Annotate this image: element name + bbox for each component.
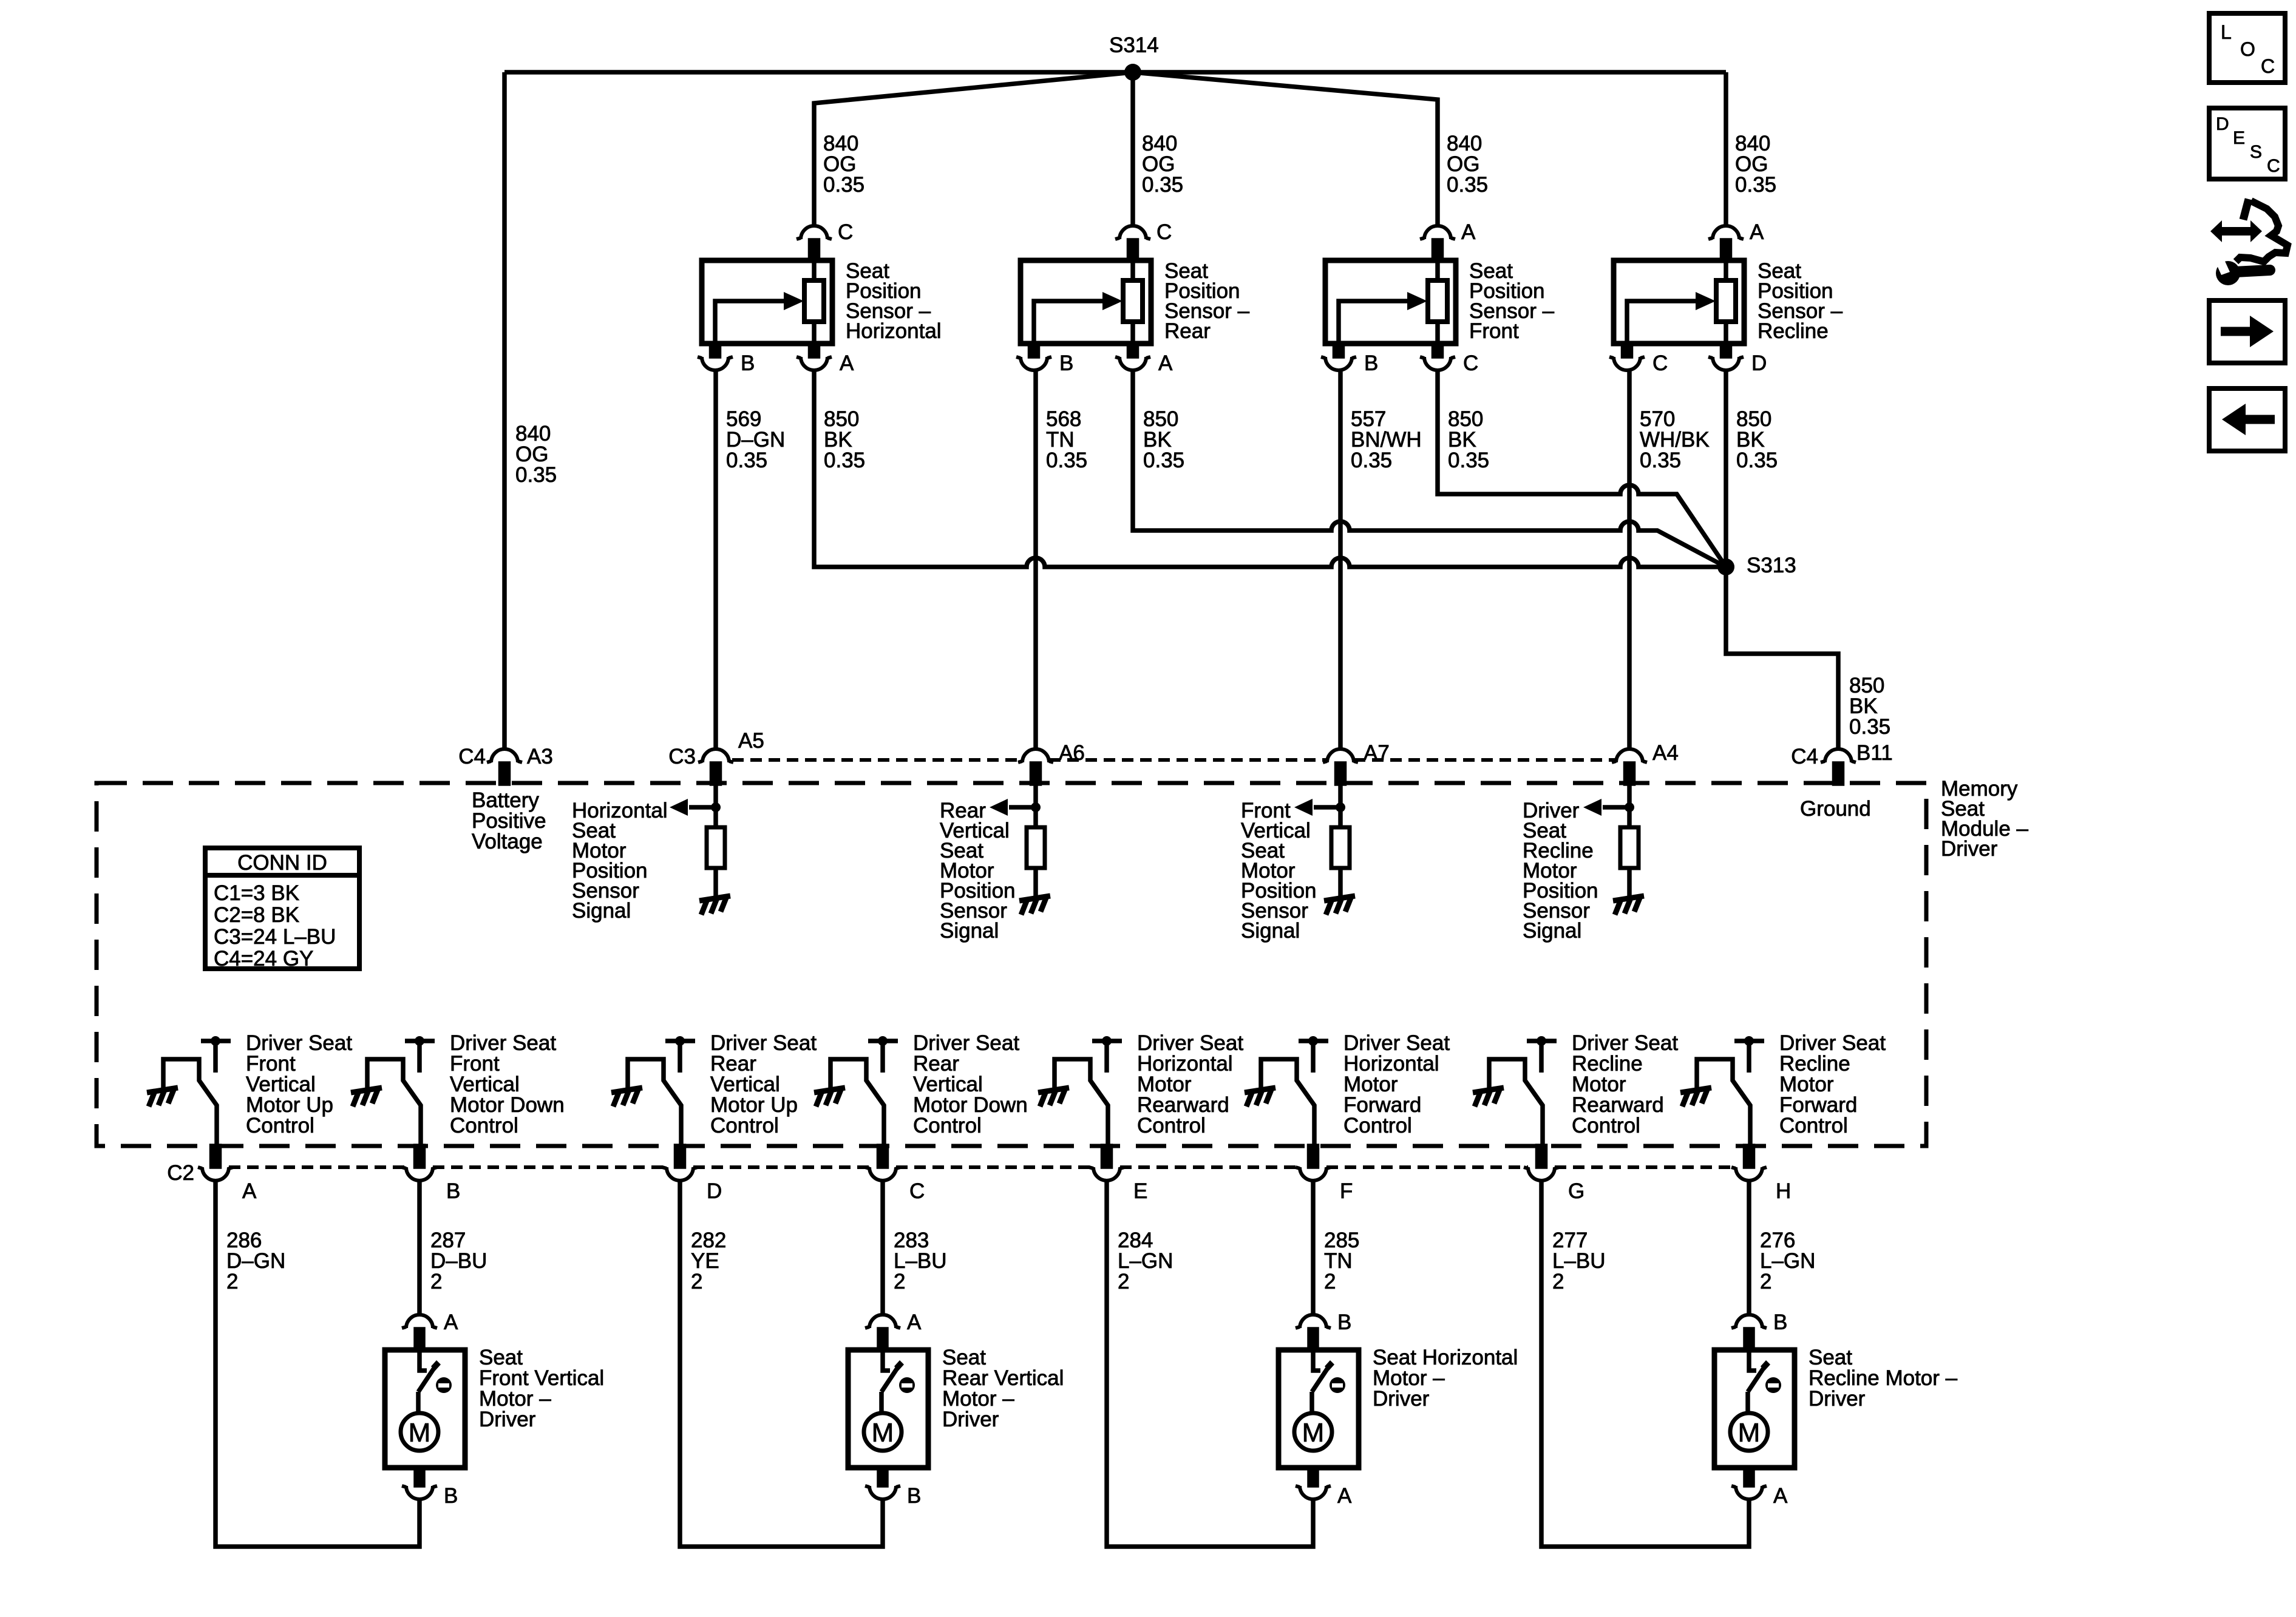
svg-text:CONN ID: CONN ID	[237, 851, 327, 875]
svg-text:Control: Control	[1343, 1114, 1412, 1137]
module pin E connector C2	[1089, 1146, 1147, 1203]
label 277 L–BU	[1552, 1229, 1606, 1293]
svg-text:0.35: 0.35	[1351, 449, 1392, 472]
seat position sensor Front - top pin A	[1420, 220, 1476, 258]
svg-text:S: S	[2250, 142, 2262, 162]
module pin A4	[1612, 741, 1679, 784]
svg-text:A: A	[1337, 1484, 1352, 1508]
svg-text:0.35: 0.35	[1849, 715, 1890, 739]
wire 557 BN/WH sensor front pin B to module pin A7	[1338, 369, 1343, 749]
svg-text:2: 2	[1118, 1270, 1129, 1293]
module pin A6	[1018, 741, 1085, 784]
svg-text:A: A	[1461, 220, 1476, 244]
module pin A3 connector C4	[458, 745, 553, 784]
wire 282 YE module pin D to rear vertical motor pin B	[680, 1181, 883, 1547]
label 282 YE	[691, 1229, 726, 1293]
svg-text:0.35: 0.35	[1735, 173, 1776, 197]
ground rear sensor signal	[1019, 896, 1050, 915]
ground front vertical motor down switch	[351, 1088, 382, 1107]
svg-text:A: A	[1158, 351, 1173, 375]
seat position sensor Recline - bottom pin D	[1708, 346, 1767, 375]
label 850 BK	[1736, 407, 1778, 472]
seat position sensor Recline body	[1614, 259, 1843, 346]
motor Seat Recline Motor – driver - bottom pin A	[1731, 1468, 1788, 1508]
svg-text:A: A	[840, 351, 854, 375]
svg-text:C4: C4	[458, 745, 486, 768]
svg-text:B: B	[1337, 1310, 1351, 1334]
icon LOC box	[2209, 13, 2285, 83]
splice S313	[1717, 554, 1796, 577]
wire 286 D-GN module pin A to front vertical motor pin B	[216, 1181, 419, 1547]
svg-text:Driver: Driver	[1941, 837, 1998, 861]
svg-text:Horizontal: Horizontal	[846, 319, 942, 343]
motor Seat Horizontal Motor – driver - bottom pin A	[1296, 1468, 1352, 1508]
svg-text:Driver: Driver	[1809, 1387, 1866, 1411]
svg-text:C: C	[909, 1179, 925, 1203]
label 284 L–GN	[1118, 1229, 1173, 1293]
svg-text:Recline: Recline	[1758, 319, 1829, 343]
wire 840 OG battery feed drop to module pin A3	[502, 72, 507, 749]
motor Seat Rear Vertical Motor – driver body	[848, 1346, 1064, 1468]
label C2	[167, 1161, 194, 1185]
Driver Seat sensor signal branch	[1523, 784, 1634, 943]
svg-text:Control: Control	[1137, 1114, 1206, 1137]
svg-text:M: M	[1302, 1418, 1325, 1448]
seat position sensor Rear - bottom pin B	[1016, 346, 1073, 375]
svg-text:0.35: 0.35	[823, 173, 864, 197]
label 850 BK	[1448, 407, 1489, 472]
svg-text:Control: Control	[246, 1114, 314, 1137]
switch Driver Seat Horizontal Motor Forward control	[1261, 1031, 1450, 1146]
svg-text:Control: Control	[1572, 1114, 1640, 1137]
svg-text:0.35: 0.35	[726, 449, 767, 472]
svg-text:Driver: Driver	[1373, 1387, 1430, 1411]
switch Driver Seat Recline Motor Rearward control	[1489, 1031, 1678, 1146]
module pin A5 connector C3	[668, 729, 764, 784]
wire 850 BK splice S313 to module pin B11	[1726, 567, 1838, 749]
ground front vertical motor up switch	[147, 1088, 178, 1107]
svg-text:D: D	[1751, 351, 1767, 375]
seat position sensor Rear body	[1021, 259, 1250, 346]
seat position sensor Recline - top pin A	[1708, 220, 1764, 258]
svg-text:Signal: Signal	[572, 899, 631, 923]
switch Driver Seat Horizontal Motor Rearward control	[1055, 1031, 1243, 1146]
motor Seat Recline Motor – driver body	[1714, 1346, 1958, 1468]
label 276 L–GN	[1760, 1229, 1815, 1293]
wire 850 BK sensor front pin C to splice S313	[1438, 369, 1726, 567]
module pin D connector C2	[662, 1146, 722, 1203]
resistor horizontal sensor signal pull-down	[707, 827, 725, 868]
module pin C connector C2	[865, 1146, 925, 1203]
svg-text:Rear: Rear	[1164, 319, 1211, 343]
label 840 OG 0.35	[1447, 132, 1488, 197]
svg-text:0.35: 0.35	[1448, 449, 1489, 472]
module pin G connector C2	[1524, 1146, 1584, 1203]
label 850 BK 0.35 ground wire	[1849, 674, 1890, 739]
svg-text:Control: Control	[710, 1114, 779, 1137]
svg-text:A5: A5	[738, 729, 764, 753]
svg-text:C1=3 BK: C1=3 BK	[214, 881, 299, 905]
wire 570 WH/BK sensor recline pin C to module pin A4	[1627, 369, 1632, 749]
svg-text:2: 2	[1552, 1270, 1564, 1293]
icon wrench	[2215, 259, 2270, 285]
label 557 BN/WH	[1351, 407, 1422, 472]
wire 276 L-GN module pin H to recline motor pin B	[1747, 1181, 1751, 1314]
svg-text:Control: Control	[450, 1114, 518, 1137]
seat position sensor Front - bottom pin C	[1420, 346, 1478, 375]
wire 285 TN module pin F to horizontal motor pin B	[1311, 1181, 1316, 1314]
svg-text:B: B	[444, 1484, 458, 1508]
svg-text:A: A	[444, 1310, 458, 1334]
svg-text:C: C	[1652, 351, 1668, 375]
svg-text:C3: C3	[668, 745, 696, 768]
ground recline motor rearward switch	[1473, 1088, 1504, 1107]
svg-text:C: C	[2261, 55, 2275, 77]
ground horizontal motor forward switch	[1245, 1088, 1275, 1107]
svg-text:D: D	[2216, 114, 2229, 134]
wire 850 BK sensor horizontal pin A to splice S313	[814, 369, 1726, 567]
label 850 BK	[824, 407, 865, 472]
label 850 BK	[1143, 407, 1184, 472]
ground recline motor forward switch	[1680, 1088, 1711, 1107]
splice S314	[1109, 33, 1159, 81]
connector dotted line C2 row	[229, 1165, 1736, 1169]
ground rear vertical motor up switch	[611, 1088, 642, 1107]
svg-text:2: 2	[691, 1270, 702, 1293]
switch Driver Seat Rear Vertical Motor Down control	[830, 1031, 1028, 1146]
ground rear vertical motor down switch	[814, 1088, 845, 1107]
svg-text:S313: S313	[1747, 554, 1796, 577]
svg-text:H: H	[1776, 1179, 1791, 1203]
svg-text:2: 2	[894, 1270, 905, 1293]
label 287 D–BU	[430, 1229, 487, 1293]
ground driver sensor signal	[1613, 896, 1644, 915]
wire 568 TN sensor rear pin B to module pin A6	[1033, 369, 1038, 749]
svg-text:2: 2	[226, 1270, 238, 1293]
module pin A connector C2	[198, 1146, 257, 1203]
wire 850 BK sensor rear pin A to splice S313	[1133, 369, 1726, 567]
svg-text:O: O	[2240, 38, 2255, 60]
connector dotted line C3 row	[732, 758, 1615, 762]
svg-text:2: 2	[430, 1270, 442, 1293]
seat position sensor Horizontal - bottom pin A	[796, 346, 854, 375]
resistor front sensor signal pull-down	[1331, 827, 1350, 868]
svg-text:C: C	[838, 220, 853, 244]
motor Seat Rear Vertical Motor – driver - bottom pin B	[865, 1468, 921, 1508]
resistor rear sensor signal pull-down	[1027, 827, 1045, 868]
wire top bus drop to recline sensor pin A	[1724, 72, 1728, 226]
svg-text:C: C	[1463, 351, 1478, 375]
svg-text:A3: A3	[527, 745, 553, 768]
wire 287 D-BU module pin B to front vertical motor pin A	[417, 1181, 422, 1314]
svg-text:Control: Control	[913, 1114, 982, 1137]
svg-text:0.35: 0.35	[824, 449, 865, 472]
label 840 OG 0.35	[1735, 132, 1776, 197]
svg-text:Signal: Signal	[940, 919, 999, 943]
svg-text:B: B	[1364, 351, 1378, 375]
wire 569 D-GN sensor horizontal pin B to module pin A5	[713, 369, 718, 749]
motor Seat Rear Vertical Motor – driver - top pin A	[865, 1310, 922, 1348]
module pin A7	[1323, 741, 1390, 784]
svg-text:0.35: 0.35	[515, 463, 557, 487]
svg-text:D: D	[707, 1179, 722, 1203]
seat position sensor Rear - bottom pin A	[1115, 346, 1173, 375]
svg-text:0.35: 0.35	[1143, 449, 1184, 472]
svg-text:A: A	[907, 1310, 922, 1334]
wire 850 BK sensor recline pin D to splice S313	[1724, 369, 1728, 567]
svg-text:A7: A7	[1364, 741, 1390, 765]
resistor driver sensor signal pull-down	[1620, 827, 1639, 868]
icon DESC box	[2209, 108, 2285, 179]
svg-text:A: A	[1750, 220, 1764, 244]
label 570 WH/BK	[1640, 407, 1710, 472]
wire S314 to front sensor pin A	[1133, 72, 1438, 226]
svg-text:M: M	[409, 1418, 431, 1448]
svg-text:B: B	[446, 1179, 460, 1203]
svg-text:Signal: Signal	[1523, 919, 1581, 943]
svg-text:0.35: 0.35	[1736, 449, 1778, 472]
svg-text:2: 2	[1324, 1270, 1336, 1293]
svg-text:B11: B11	[1856, 741, 1893, 765]
svg-text:B: B	[1059, 351, 1073, 375]
svg-text:E: E	[1133, 1179, 1147, 1203]
ground horizontal sensor signal	[699, 896, 730, 915]
motor Seat Front Vertical Motor – driver body	[385, 1346, 604, 1468]
connector ID table	[205, 848, 359, 971]
svg-text:C3=24 L–BU: C3=24 L–BU	[214, 925, 336, 949]
switch Driver Seat Front Vertical Motor Down control	[367, 1031, 565, 1146]
motor Seat Recline Motor – driver - top pin B	[1731, 1310, 1787, 1348]
svg-text:C: C	[1156, 220, 1172, 244]
wire S314 to horizontal sensor pin C	[814, 72, 1133, 226]
svg-text:G: G	[1568, 1179, 1584, 1203]
wire 277 L-BU module pin G to recline motor pin A	[1541, 1181, 1749, 1547]
svg-text:E: E	[2233, 128, 2245, 148]
svg-text:B: B	[741, 351, 755, 375]
wire 283 L-BU module pin C to rear vertical motor pin A	[880, 1181, 885, 1314]
motor Seat Horizontal Motor – driver - top pin B	[1296, 1310, 1351, 1348]
Horizontal Seat sensor signal branch	[572, 784, 721, 923]
label battery positive voltage	[472, 788, 546, 853]
svg-text:A6: A6	[1059, 741, 1085, 765]
svg-text:Control: Control	[1779, 1114, 1848, 1137]
svg-text:L: L	[2221, 21, 2232, 43]
module pin F connector C2	[1296, 1146, 1353, 1203]
svg-text:M: M	[1738, 1418, 1761, 1448]
Rear Vertical sensor signal branch	[940, 784, 1041, 943]
icon hand with double arrow	[2210, 199, 2288, 262]
ground horizontal motor rearward switch	[1038, 1088, 1069, 1107]
svg-text:S314: S314	[1109, 33, 1159, 57]
label 283 L–BU	[894, 1229, 947, 1293]
label memory seat module - driver	[1941, 777, 2029, 861]
svg-text:Front: Front	[1469, 319, 1519, 343]
switch Driver Seat Rear Vertical Motor Up control	[628, 1031, 817, 1146]
svg-text:Voltage: Voltage	[472, 830, 543, 853]
svg-text:M: M	[872, 1418, 894, 1448]
svg-text:Ground: Ground	[1800, 797, 1871, 821]
wire top bus from battery feed to recline sensor	[504, 70, 1726, 75]
seat position sensor Front - bottom pin B	[1321, 346, 1378, 375]
wire S314 to rear sensor pin C	[1130, 72, 1135, 226]
icon arrow left box	[2209, 388, 2285, 451]
svg-text:C4=24 GY: C4=24 GY	[214, 947, 313, 971]
svg-text:Driver: Driver	[942, 1408, 999, 1431]
wire 284 L-GN module pin E to horizontal motor pin A	[1107, 1181, 1313, 1547]
seat position sensor Recline - bottom pin C	[1609, 346, 1668, 375]
svg-text:0.35: 0.35	[1640, 449, 1681, 472]
label 285 TN	[1324, 1229, 1359, 1293]
label 840 OG 0.35	[1142, 132, 1183, 197]
svg-text:Driver: Driver	[479, 1408, 536, 1431]
label 840 OG 0.35	[823, 132, 864, 197]
seat position sensor Horizontal body	[702, 259, 942, 346]
label 286 D–GN	[226, 1229, 285, 1293]
seat position sensor Front body	[1325, 259, 1555, 346]
svg-text:C2: C2	[167, 1161, 194, 1185]
svg-text:0.35: 0.35	[1046, 449, 1087, 472]
module pin H connector C2	[1731, 1146, 1791, 1203]
svg-text:0.35: 0.35	[1447, 173, 1488, 197]
svg-text:A: A	[242, 1179, 257, 1203]
module pin B11 connector C4	[1791, 741, 1892, 784]
label 840 OG 0.35	[515, 422, 557, 487]
svg-text:A4: A4	[1652, 741, 1679, 765]
ground front sensor signal	[1324, 896, 1355, 915]
motor Seat Horizontal Motor – driver body	[1279, 1346, 1518, 1468]
memory seat module dashed outline	[97, 783, 1926, 1146]
svg-text:Signal: Signal	[1241, 919, 1300, 943]
svg-text:C4: C4	[1791, 745, 1818, 768]
switch Driver Seat Recline Motor Forward control	[1697, 1031, 1886, 1146]
seat position sensor Horizontal - top pin C	[796, 220, 853, 258]
label ground	[1800, 797, 1871, 821]
seat position sensor Horizontal - bottom pin B	[698, 346, 755, 375]
motor Seat Front Vertical Motor – driver - bottom pin B	[402, 1468, 458, 1508]
svg-text:0.35: 0.35	[1142, 173, 1183, 197]
icon arrow right box	[2209, 300, 2285, 363]
label 569 D–GN	[726, 407, 785, 472]
label 568 TN	[1046, 407, 1087, 472]
Front Vertical sensor signal branch	[1241, 784, 1345, 943]
module pin B connector C2	[402, 1146, 460, 1203]
svg-text:B: B	[907, 1484, 921, 1508]
seat position sensor Rear - top pin C	[1115, 220, 1172, 258]
svg-text:A: A	[1773, 1484, 1788, 1508]
switch Driver Seat Front Vertical Motor Up control	[163, 1031, 352, 1146]
motor Seat Front Vertical Motor – driver - top pin A	[402, 1310, 458, 1348]
svg-text:F: F	[1340, 1179, 1353, 1203]
svg-text:B: B	[1773, 1310, 1787, 1334]
svg-text:C2=8 BK: C2=8 BK	[214, 903, 299, 927]
svg-text:C: C	[2267, 156, 2280, 176]
svg-text:2: 2	[1760, 1270, 1771, 1293]
